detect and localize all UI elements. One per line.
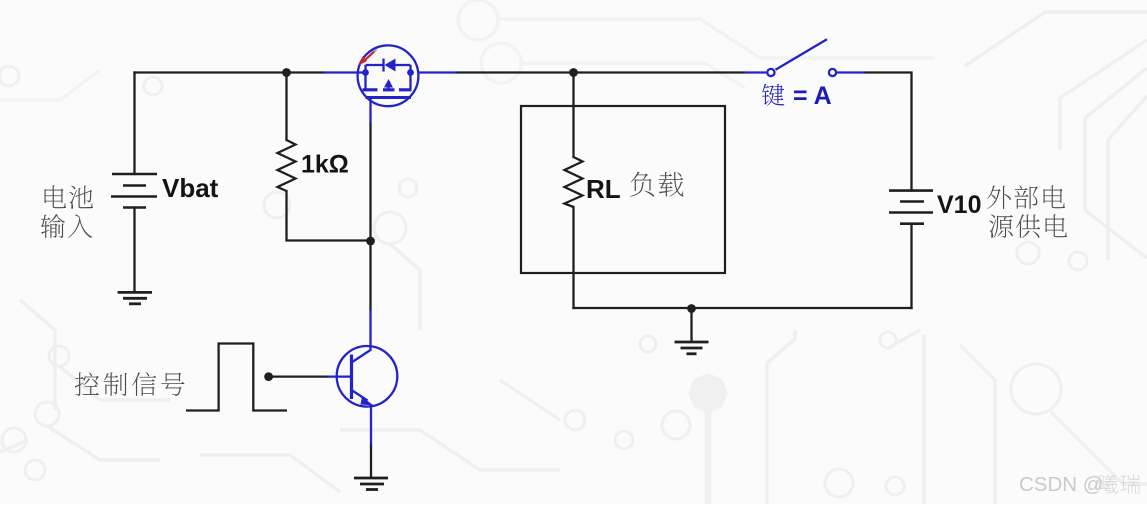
label: battery input (Chinese) line2: [41, 214, 65, 238]
load enclosure box: [521, 106, 725, 273]
ground at bottom rail: [675, 342, 709, 354]
wire: resistor R1 bottom to gate node: [287, 191, 371, 241]
svg-text:= A: = A: [793, 82, 832, 110]
wire: switch to V10 battery top: [865, 73, 912, 191]
ground below Q2 emitter: [354, 478, 388, 490]
svg-text:RL: RL: [586, 174, 621, 204]
battery Vbat plate long: [111, 195, 157, 198]
battery V10 plate short bottom: [900, 222, 924, 225]
battery Vbat plate short bottom: [123, 206, 146, 209]
label: control signal (Chinese): [75, 372, 99, 396]
battery V10 plate long: [889, 211, 933, 214]
wire: MOSFET gate down to BJT collector: [369, 123, 371, 310]
wire: top rail from Vbat to MOSFET left lead: [135, 71, 325, 73]
label: external supply (Chinese) line1: [987, 185, 1011, 209]
MOSFET Q1 body diode triangle: [385, 59, 396, 72]
svg-text:CSDN @: CSDN @: [1019, 473, 1104, 496]
svg-text:Vbat: Vbat: [162, 173, 219, 203]
wire: BJT emitter to ground: [370, 445, 372, 478]
resistor R1 1k ohm zigzag: [278, 140, 296, 191]
MOSFET Q1 source/drain terminal dots: [362, 69, 369, 76]
switch S1 (key = A): [744, 39, 865, 76]
node: bottom rail ground junction: [687, 304, 696, 313]
node: control signal node dot: [264, 372, 273, 381]
battery Vbat plate short: [123, 184, 146, 187]
wire: top rail to resistor R1: [285, 73, 287, 141]
wire: Vbat positive lead: [133, 73, 135, 175]
label: battery input (Chinese) line1: [45, 185, 67, 208]
transistor Q2 NPN: [327, 310, 397, 445]
ground below Vbat: [118, 292, 152, 303]
wire: bottom rail: [574, 307, 912, 309]
label: external supply (Chinese) line2: [989, 214, 1013, 237]
battery Vbat plate long top: [112, 173, 157, 176]
node: top-middle junction (load tap): [569, 68, 578, 77]
wire: top rail down into load box: [572, 73, 574, 158]
red probe arrow on MOSFET: [367, 50, 377, 59]
wire: top rail MOSFET right lead to switch: [457, 71, 744, 73]
control signal pulse waveform: [186, 344, 287, 411]
resistor RL zigzag: [565, 157, 583, 207]
svg-text:1kΩ: 1kΩ: [301, 151, 349, 179]
MOSFET Q1 body arrow: [384, 79, 393, 88]
label: load (Chinese): [630, 172, 654, 197]
node: resistor/gate/collector junction: [366, 237, 375, 246]
transistor Q2 emitter arrowhead: [361, 397, 374, 406]
node: top-left junction (gate/resistor rail): [282, 68, 291, 77]
MOSFET Q1 PMOS: [324, 45, 457, 123]
wire: control signal dot to BJT base: [269, 375, 327, 377]
battery V10 plate short: [900, 200, 924, 203]
wire: bottom rail to ground stem: [690, 309, 692, 342]
wire: V10 negative lead: [910, 224, 912, 308]
wire: RL bottom to bottom rail: [572, 207, 574, 308]
svg-text:V10: V10: [937, 191, 981, 219]
label: key = A: [762, 84, 784, 106]
battery V10 plate long top: [889, 189, 933, 192]
wire: Vbat negative lead to ground: [133, 208, 135, 293]
